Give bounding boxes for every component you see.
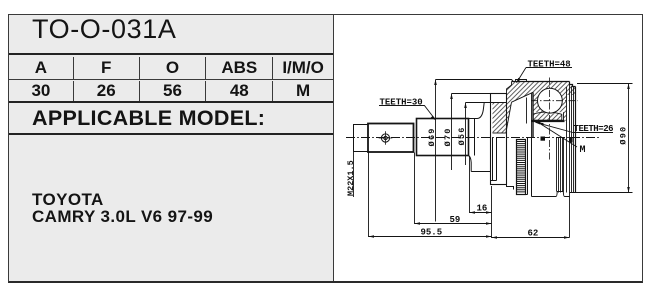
svg-text:62: 62 <box>528 229 539 239</box>
svg-text:16: 16 <box>477 204 488 214</box>
svg-text:Ø70: Ø70 <box>443 127 453 146</box>
svg-text:TEETH=48: TEETH=48 <box>528 59 571 69</box>
svg-text:Ø56: Ø56 <box>457 126 467 145</box>
svg-text:59: 59 <box>450 215 461 225</box>
svg-text:Ø69: Ø69 <box>427 127 437 146</box>
svg-text:95.5: 95.5 <box>421 228 443 238</box>
svg-text:TEETH=26: TEETH=26 <box>574 124 614 134</box>
svg-text:M22X1.5: M22X1.5 <box>346 160 356 196</box>
svg-text:TEETH=30: TEETH=30 <box>380 98 423 108</box>
svg-text:Ø90: Ø90 <box>619 126 629 145</box>
svg-text:M: M <box>580 145 586 156</box>
